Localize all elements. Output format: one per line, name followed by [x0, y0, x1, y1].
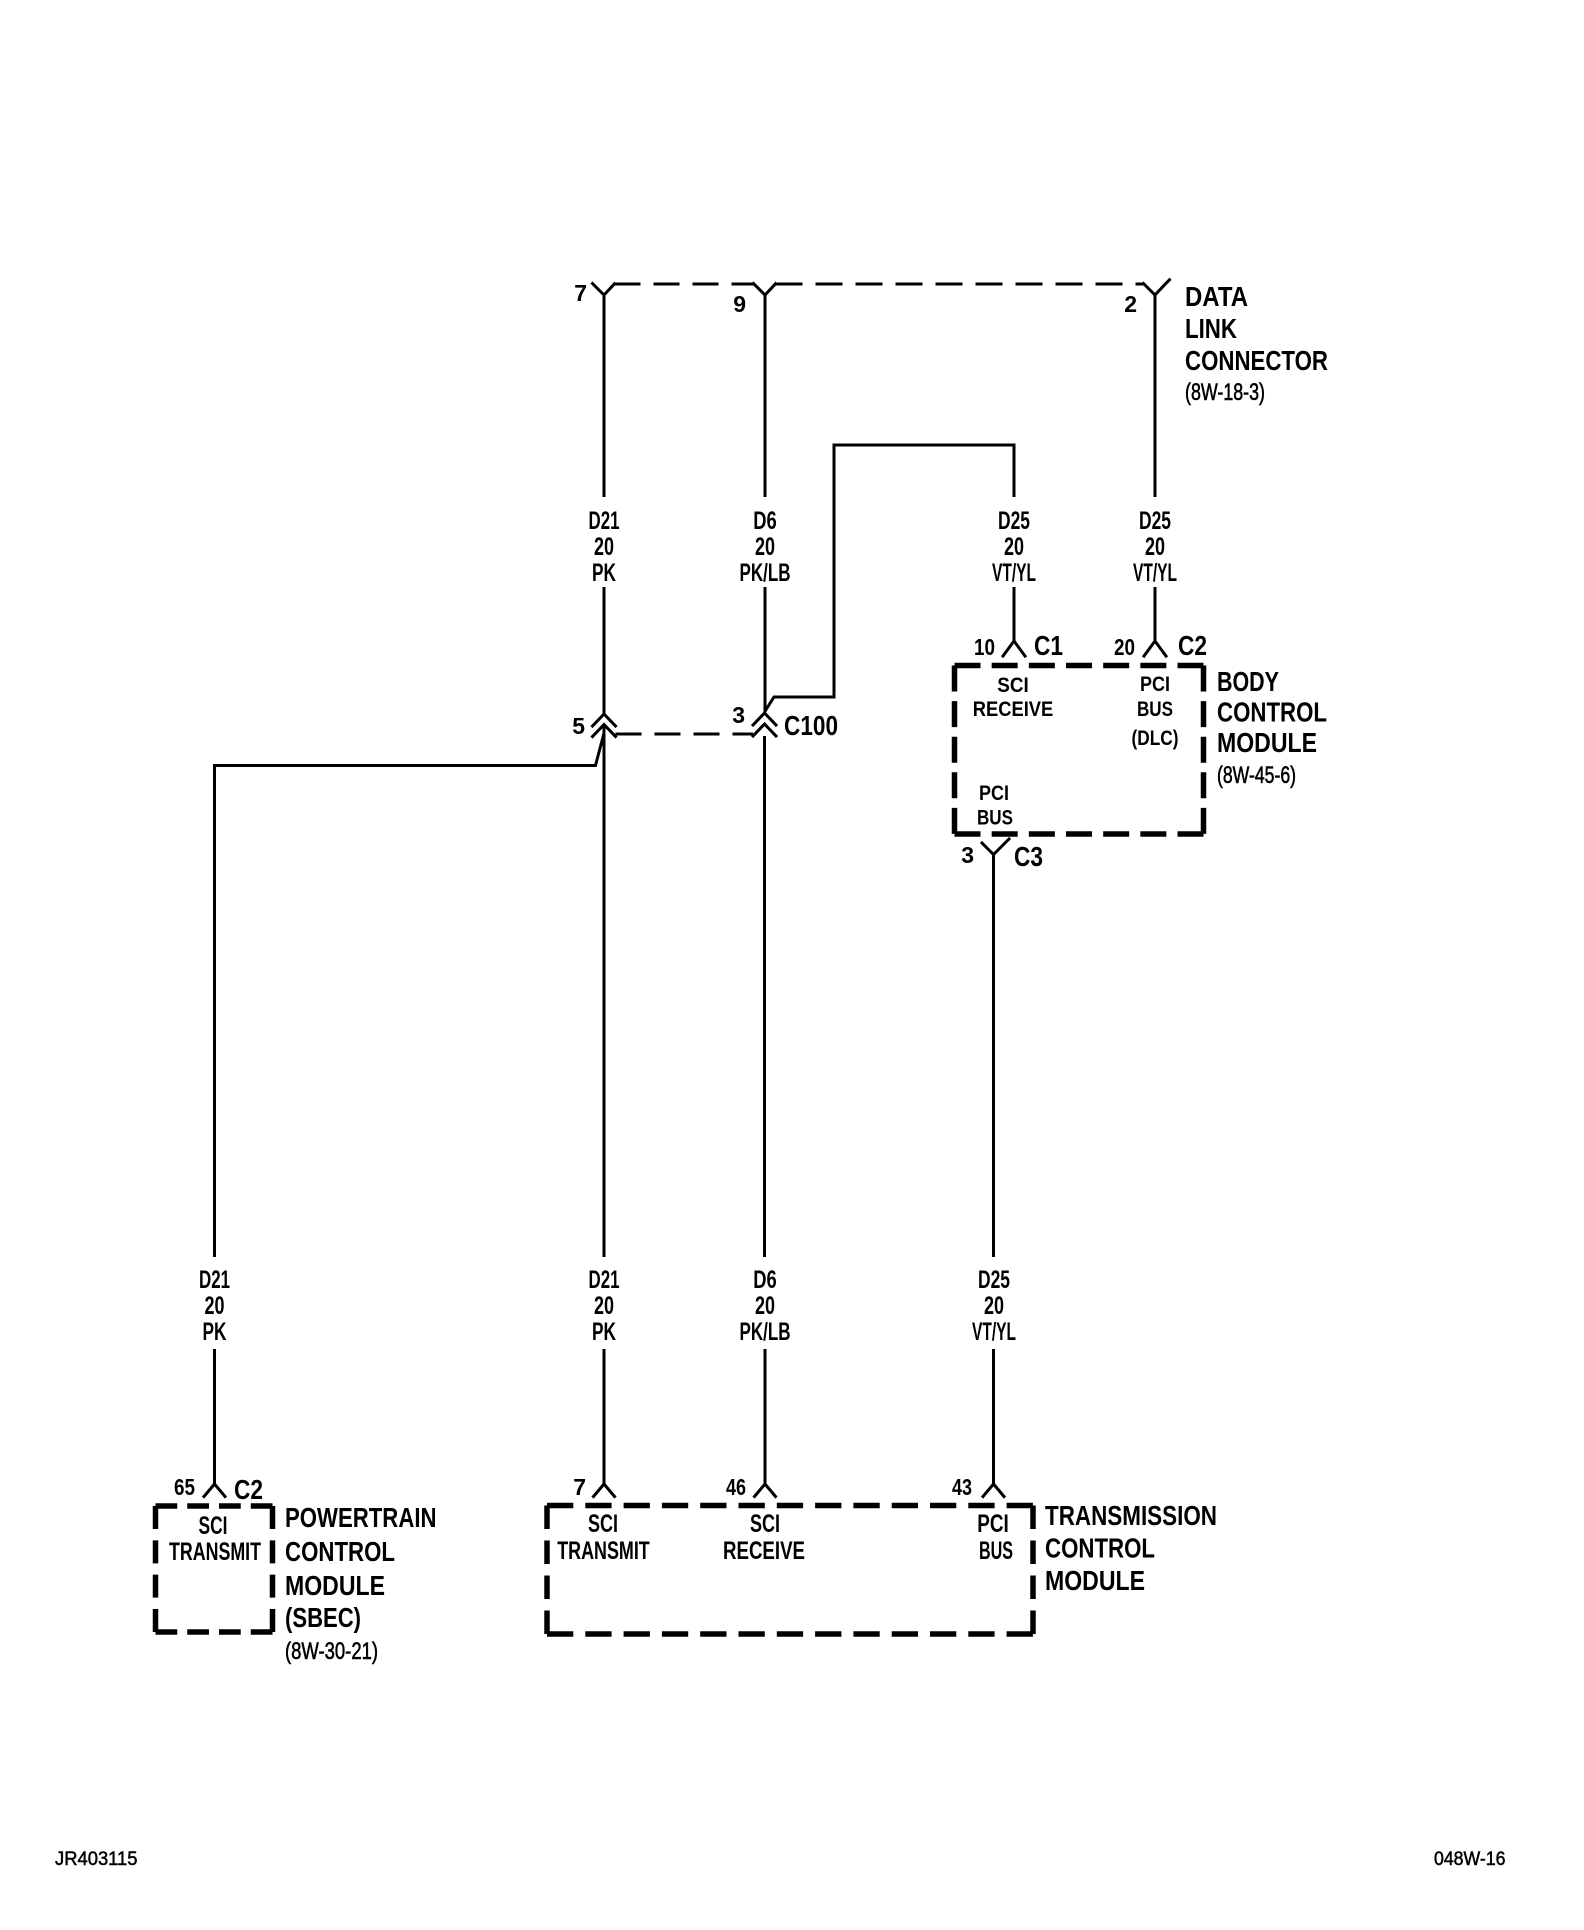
connector pin 43 of TCM [983, 1484, 1004, 1497]
wire: branch from C100 pin3 to BCM C1 (diagonal, up and over) [765, 445, 1015, 712]
svg-text:DATA: DATA [1185, 281, 1248, 312]
svg-text:20: 20 [205, 1292, 225, 1320]
module box: POWERTRAIN CONTROL MODULE [156, 1506, 273, 1632]
connector pin 7 of DLC (Y symbol) [593, 284, 615, 296]
svg-text:C3: C3 [1014, 841, 1043, 872]
wire: C100 dashed connector line [616, 733, 754, 736]
svg-text:SCI: SCI [997, 674, 1029, 697]
wire: label to C100 pin 5 [603, 587, 606, 714]
svg-text:(DLC): (DLC) [1132, 727, 1179, 750]
svg-text:D6: D6 [753, 507, 777, 535]
svg-text:BUS: BUS [977, 807, 1013, 830]
svg-text:BUS: BUS [979, 1537, 1013, 1565]
svg-text:PK: PK [592, 1318, 616, 1346]
wire: label down to BCM C1 [1013, 587, 1016, 641]
svg-text:(SBEC): (SBEC) [285, 1602, 361, 1633]
svg-text:PK/LB: PK/LB [740, 559, 791, 587]
wire: DLC dashed bus segment pin7 to pin9 [615, 283, 754, 286]
connector pin 9 of DLC (Y symbol) [754, 284, 776, 296]
wire: below C100 pin3 down to lower D6 label [763, 736, 766, 1257]
svg-text:MODULE: MODULE [1045, 1565, 1145, 1596]
wire: BCM C3 down to D25 label [992, 854, 995, 1257]
in-line connector C100 pin 5 (double caret) [593, 714, 616, 726]
connector pin 7 of TCM [594, 1484, 615, 1497]
svg-text:BODY: BODY [1217, 666, 1279, 697]
wire: branch from C100 pin5 to PCM (diagonal + left run + down) [215, 733, 605, 1257]
svg-text:CONTROL: CONTROL [1045, 1533, 1155, 1564]
svg-text:PCI: PCI [979, 782, 1009, 805]
svg-text:(8W-45-6): (8W-45-6) [1217, 762, 1296, 789]
svg-text:43: 43 [952, 1474, 972, 1500]
svg-text:20: 20 [984, 1292, 1004, 1320]
svg-text:RECEIVE: RECEIVE [723, 1537, 805, 1565]
svg-text:SCI: SCI [588, 1510, 618, 1538]
svg-text:TRANSMISSION: TRANSMISSION [1045, 1500, 1217, 1531]
svg-text:9: 9 [733, 291, 746, 317]
svg-text:C1: C1 [1034, 630, 1063, 661]
connector C2 pin 20 of BCM [1144, 641, 1166, 656]
svg-text:D25: D25 [998, 507, 1030, 535]
svg-text:CONTROL: CONTROL [1217, 697, 1327, 728]
svg-text:TRANSMIT: TRANSMIT [169, 1538, 261, 1566]
svg-text:PK: PK [592, 559, 616, 587]
svg-text:7: 7 [573, 1474, 586, 1500]
connector pin 46 of TCM [755, 1484, 776, 1497]
wire: DLC dashed bus segment pin9 to pin2 [776, 283, 1144, 286]
svg-text:SCI: SCI [750, 1510, 780, 1538]
in-line connector C100 pin 3 (double caret) [753, 713, 776, 725]
connector C1 pin 10 of BCM [1003, 641, 1025, 656]
wire: below C100 pin5 down to lower D21 label [603, 726, 606, 1257]
wire: label down to PCM pin 65 [213, 1349, 216, 1484]
connector C3 pin 3 of BCM (Y symbol) [982, 839, 1009, 855]
svg-text:20: 20 [755, 533, 775, 561]
svg-text:2: 2 [1124, 291, 1137, 317]
module box: BODY CONTROL MODULE [955, 666, 1204, 835]
wire: label down to TCM pin 7 [603, 1349, 606, 1484]
wire: label down to TCM pin 46 [764, 1349, 767, 1484]
svg-text:D21: D21 [199, 1266, 230, 1294]
svg-text:20: 20 [1114, 634, 1135, 660]
svg-text:20: 20 [1145, 533, 1165, 561]
svg-text:65: 65 [174, 1474, 195, 1500]
wire: DLC pin 7 down to label D21 [603, 294, 606, 497]
svg-text:20: 20 [755, 1292, 775, 1320]
svg-text:MODULE: MODULE [285, 1570, 385, 1601]
wire: label to C100 pin 3 [764, 587, 767, 712]
svg-text:10: 10 [974, 634, 995, 660]
svg-text:7: 7 [574, 280, 587, 306]
svg-text:20: 20 [1004, 533, 1024, 561]
svg-text:C100: C100 [784, 710, 838, 741]
svg-text:PCI: PCI [1140, 673, 1170, 696]
svg-text:20: 20 [594, 1292, 614, 1320]
wire: label down to BCM C2 [1154, 587, 1157, 641]
svg-text:3: 3 [961, 842, 974, 868]
svg-text:CONTROL: CONTROL [285, 1536, 395, 1567]
svg-text:D6: D6 [753, 1266, 777, 1294]
svg-text:LINK: LINK [1185, 313, 1237, 344]
svg-text:VT/YL: VT/YL [972, 1318, 1016, 1346]
connector pin 2 of DLC (Y symbol) [1144, 280, 1170, 295]
svg-text:46: 46 [726, 1474, 746, 1500]
svg-text:VT/YL: VT/YL [992, 559, 1036, 587]
svg-text:CONNECTOR: CONNECTOR [1185, 345, 1328, 376]
wire: DLC pin 2 down to label D25 [1154, 294, 1157, 497]
svg-text:20: 20 [594, 533, 614, 561]
svg-text:POWERTRAIN: POWERTRAIN [285, 1502, 437, 1533]
svg-text:PCI: PCI [977, 1510, 1009, 1538]
svg-text:(8W-30-21): (8W-30-21) [285, 1638, 378, 1665]
svg-text:D25: D25 [1139, 507, 1171, 535]
svg-text:D25: D25 [978, 1266, 1010, 1294]
svg-text:BUS: BUS [1137, 698, 1173, 721]
svg-text:TRANSMIT: TRANSMIT [557, 1537, 650, 1565]
svg-text:D21: D21 [589, 1266, 620, 1294]
svg-text:(8W-18-3): (8W-18-3) [1185, 379, 1265, 406]
svg-text:SCI: SCI [199, 1512, 228, 1540]
svg-text:C2: C2 [1178, 630, 1207, 661]
svg-text:C2: C2 [234, 1474, 263, 1505]
svg-text:PK: PK [203, 1318, 227, 1346]
svg-text:3: 3 [732, 702, 745, 728]
module box: TRANSMISSION CONTROL MODULE [547, 1506, 1033, 1635]
svg-text:PK/LB: PK/LB [740, 1318, 791, 1346]
svg-text:5: 5 [572, 713, 585, 739]
wire: label down to TCM pin 43 [992, 1349, 995, 1484]
svg-text:MODULE: MODULE [1217, 727, 1317, 758]
wire: DLC pin 9 down to label D6 [764, 294, 767, 497]
svg-text:VT/YL: VT/YL [1133, 559, 1177, 587]
svg-text:048W-16: 048W-16 [1434, 1849, 1506, 1870]
svg-text:D21: D21 [589, 507, 620, 535]
svg-text:JR403115: JR403115 [55, 1849, 138, 1870]
svg-text:RECEIVE: RECEIVE [973, 698, 1054, 721]
connector pin 65 of PCM [204, 1484, 225, 1497]
